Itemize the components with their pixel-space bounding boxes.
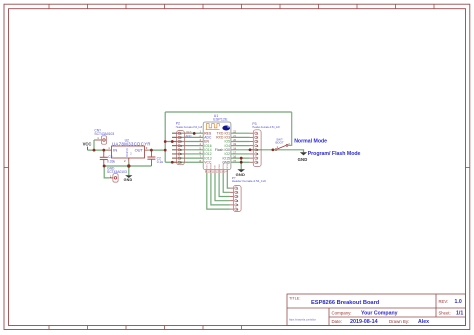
svg-text:2: 2 [124, 159, 126, 163]
svg-text:https://easyeda.com/alice: https://easyeda.com/alice [289, 318, 317, 321]
svg-text:MOSI: MOSI [223, 163, 225, 169]
junction P2 pin3 [171, 140, 174, 143]
svg-text:GND: GND [236, 172, 246, 177]
net port VCC [83, 142, 92, 151]
wire right row6 IO2 [231, 153, 250, 155]
wire right row5 IO0 to switch [231, 149, 273, 151]
svg-text:OUT: OUT [135, 148, 144, 153]
svg-text:Drawn By:: Drawn By: [389, 319, 409, 324]
wire regulator GND [128, 162, 130, 166]
junction EN branch [164, 140, 167, 143]
svg-text:MISO: MISO [211, 163, 213, 169]
svg-text:Program/ Flash Mode: Program/ Flash Mode [308, 151, 361, 157]
wire GND rail [104, 165, 151, 167]
svg-text:SCLK: SCLK [227, 163, 229, 169]
bottom rotated pin names [207, 163, 230, 169]
title block border [287, 294, 466, 326]
module U1 ESP12E [200, 114, 237, 174]
wire 3.3V riser [164, 112, 166, 162]
svg-text:GND: GND [124, 178, 133, 182]
junction CN1/VCC [93, 149, 96, 152]
pin 2 GND [128, 158, 130, 162]
svg-text:ESP8266 Breakout Board: ESP8266 Breakout Board [311, 300, 380, 306]
svg-text:1.0: 1.0 [455, 299, 462, 305]
right pin names [215, 131, 231, 164]
junction C2 top [150, 149, 153, 152]
junction switch [272, 149, 275, 152]
pin 3 OUT [145, 149, 149, 151]
wire bottom pin14 to P1-1 [227, 173, 230, 188]
svg-text:Date:: Date: [332, 319, 343, 324]
left pin numbers [200, 131, 202, 163]
svg-text:CS0: CS0 [207, 164, 209, 169]
junction C1 bottom / GND tap [103, 165, 106, 168]
junction P2 pin8 [171, 161, 174, 164]
svg-text:0.1u: 0.1u [157, 160, 164, 164]
junction GND row [240, 161, 243, 164]
regulator U2 UA78M33CDCYR [108, 139, 151, 164]
wire VCC input [88, 149, 109, 151]
junction regulator GND on rail [127, 164, 130, 167]
header P2 Header-Female-2.54_1x8 [172, 121, 203, 164]
wire GND symbol stem [128, 166, 130, 175]
ground symbol (regulator) [124, 175, 133, 182]
wire right row2 RXD [231, 136, 250, 138]
svg-text:IO9: IO9 [215, 165, 217, 169]
svg-text:0.33u: 0.33u [107, 160, 115, 164]
wire right row8 GND [231, 161, 250, 163]
junction row1 [193, 132, 196, 135]
wire GND rail to CN2 [104, 166, 109, 178]
left pin names [204, 131, 212, 164]
wire row6 IO12 [172, 153, 203, 155]
svg-text:REV:: REV: [439, 299, 449, 304]
wire row4 IO16 [172, 145, 203, 147]
svg-text:BOOT: BOOT [276, 141, 284, 145]
svg-text:ADC: ADC [185, 134, 192, 138]
wire right row3 IO5 [231, 141, 250, 143]
wire row1 RES [172, 132, 203, 134]
svg-text:Normal Mode: Normal Mode [294, 138, 327, 144]
wire row3 EN (from 3.3V riser) [165, 141, 203, 143]
junction OUT riser [164, 149, 167, 152]
ground symbol (ESP) [236, 169, 246, 177]
wire bottom pin9 to P1-6 [207, 173, 230, 209]
svg-text:Company:: Company: [332, 310, 352, 315]
ground symbol (boot mode) [298, 152, 308, 162]
wire row8 VCC (from riser) [165, 161, 203, 163]
chip drawing [222, 126, 230, 131]
svg-text:IN: IN [113, 148, 117, 153]
switch SW? BOOT [275, 138, 290, 151]
wire IO15/GND down stem [240, 158, 242, 169]
wire row5 IO14 [172, 149, 203, 151]
header P1 Header-Female-2.54_1x6 [230, 176, 266, 212]
svg-text:Alex: Alex [418, 319, 429, 325]
wire 3.3V top rail [165, 111, 292, 113]
svg-text:8: 8 [257, 160, 259, 164]
svg-text:VCC: VCC [83, 142, 92, 147]
wire IO0 to GND end [273, 150, 304, 152]
svg-text:1: 1 [97, 136, 99, 140]
svg-text:Header-Female-2.54_1x8: Header-Female-2.54_1x8 [176, 126, 203, 129]
svg-text:3: 3 [146, 146, 148, 150]
svg-text:1/1: 1/1 [456, 311, 463, 317]
svg-text:Sheet:: Sheet: [439, 311, 451, 316]
pin 1 IN [108, 149, 112, 151]
svg-text:6: 6 [237, 207, 239, 211]
junction P3 pin5 [249, 149, 252, 152]
svg-text:Header-Female-2.54_1x8: Header-Female-2.54_1x8 [252, 126, 280, 129]
svg-text:Header Female-2.54_1x6: Header Female-2.54_1x6 [232, 179, 266, 183]
wire row2 ADC [172, 136, 203, 138]
svg-text:GND: GND [298, 157, 308, 162]
svg-text:RES: RES [186, 130, 192, 134]
svg-text:Your Company: Your Company [361, 310, 398, 316]
connector CN2 SCT43A0103 (GND) [107, 167, 127, 182]
junction IO15 [240, 157, 243, 160]
svg-text:IO10: IO10 [219, 163, 221, 169]
svg-text:1: 1 [108, 146, 110, 150]
wire right row7 IO15 [231, 157, 250, 159]
bottom pins 9-14 [207, 170, 228, 173]
svg-text:TITLE:: TITLE: [289, 296, 300, 300]
wire CN1 to VCC rail [93, 140, 95, 150]
wire right row1 TXD [231, 132, 250, 134]
wire row7 IO13 [172, 157, 203, 159]
junction dots overlay [93, 132, 275, 168]
antenna drawing [207, 124, 220, 130]
wire bottom pin12 to P1-3 [219, 173, 230, 197]
svg-text:2: 2 [130, 152, 132, 155]
wire bottom pin10 to P1-5 [211, 173, 230, 205]
connector CN1 SCT43A0103 (VCC) [94, 128, 114, 144]
svg-text:ESP12E: ESP12E [213, 117, 228, 121]
wire 3.3V from OUT [148, 149, 165, 151]
wire right row4 IO4 [231, 145, 250, 147]
svg-text:2019-08-14: 2019-08-14 [350, 319, 378, 325]
capacitor C1 0.33u [100, 150, 116, 166]
junction C1 top [103, 149, 106, 152]
svg-text:D: D [126, 154, 129, 158]
header P3 Header-Female-2.54_1x8 [250, 122, 281, 167]
wire 3.3V rail to switch pin2 [288, 112, 292, 145]
svg-text:P2: P2 [176, 121, 180, 125]
wire bottom pin11 to P1-4 [215, 173, 230, 201]
right pin numbers [233, 131, 236, 163]
wire bottom pin13 to P1-2 [223, 173, 230, 193]
capacitor C2 0.1u [147, 150, 163, 166]
